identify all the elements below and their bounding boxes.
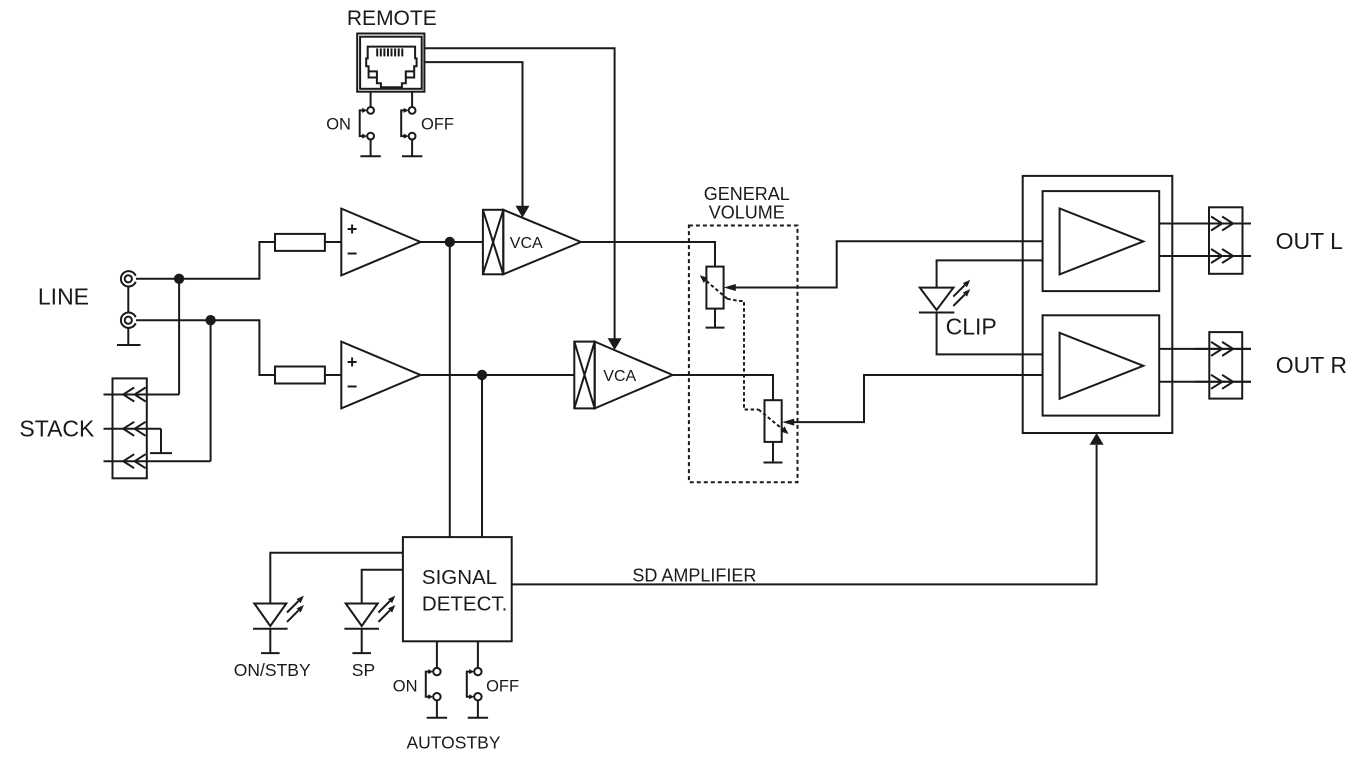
svg-text:STACK: STACK bbox=[19, 416, 95, 442]
output connector OUT R bbox=[1195, 332, 1251, 399]
wire P1 wiper to amp L input bbox=[730, 241, 1043, 287]
connector stack box bbox=[113, 378, 147, 478]
wire RCA shield link bbox=[127, 287, 129, 313]
ground at S3 bbox=[427, 717, 447, 719]
switch S4 autostby OFF bbox=[467, 641, 482, 718]
connector RCA L bbox=[121, 271, 136, 286]
op-amp U1 bbox=[341, 209, 420, 276]
svg-text:GENERAL: GENERAL bbox=[704, 184, 790, 204]
junction after U2 bbox=[477, 370, 487, 380]
amp L output wires bbox=[1159, 223, 1251, 225]
stack pin 3 wire bbox=[104, 460, 211, 462]
wire clip net to amp R aux input bbox=[937, 313, 1043, 355]
general volume dashed enclosure bbox=[689, 226, 798, 483]
resistor R1 bbox=[275, 234, 325, 251]
svg-text:VOLUME: VOLUME bbox=[709, 203, 785, 223]
wire stack pin 2 to ground bbox=[160, 429, 162, 453]
power amplifier module box bbox=[1023, 176, 1173, 433]
wire LINE R to resistor R2 bbox=[136, 320, 275, 375]
wire R2 to op-amp U2 bbox=[325, 374, 341, 376]
svg-text:LINE: LINE bbox=[38, 284, 89, 310]
ground at S2 bbox=[402, 155, 422, 157]
arrowhead into VCA1 bbox=[516, 206, 530, 218]
wire U1 out to VCA1 bbox=[421, 241, 483, 243]
P1 wiper dashed arrow bbox=[704, 279, 727, 299]
signal detect block bbox=[403, 537, 512, 641]
ground at S4 bbox=[468, 717, 488, 719]
junction node R bbox=[205, 315, 215, 325]
wire D2 to ground bbox=[269, 629, 271, 653]
op-amp U2 bbox=[341, 342, 420, 409]
LED D2 ON/STBY bbox=[253, 596, 304, 629]
LED D3 SP bbox=[344, 596, 395, 629]
junction node L bbox=[174, 274, 184, 284]
J1 pin contacts (8 pins) bbox=[377, 48, 402, 56]
wire signal detect to SP LED bbox=[362, 570, 403, 604]
ground at RCA bbox=[117, 344, 141, 346]
wire node L to stack pin1 bbox=[178, 279, 180, 395]
ground at S1 bbox=[360, 155, 380, 157]
amp R output wires bbox=[1159, 348, 1251, 350]
amp block R bbox=[1043, 315, 1160, 415]
wire LINE L to resistor R1 bbox=[136, 242, 275, 279]
svg-text:SIGNAL: SIGNAL bbox=[422, 566, 497, 589]
wire clip net to amp L aux input bbox=[937, 260, 1043, 287]
svg-text:OFF: OFF bbox=[421, 116, 454, 134]
svg-text:DETECT.: DETECT. bbox=[422, 593, 507, 616]
arrowhead into VCA2 bbox=[608, 338, 622, 350]
wire P2 wiper to amp R input bbox=[789, 375, 1043, 422]
P2 wiper dashed arrow bbox=[759, 410, 784, 430]
arrowhead into amplifier module bbox=[1090, 433, 1104, 445]
wire J1 pin to VCA1 control bbox=[424, 62, 522, 206]
wire VCA2 out to P2 bbox=[673, 375, 773, 400]
wire signal detect to ON/STBY LED bbox=[270, 553, 403, 604]
wire P1 to ground bbox=[714, 309, 716, 328]
resistor R2 bbox=[275, 367, 325, 384]
wire node R to stack pin3 bbox=[210, 320, 212, 461]
arrowhead at P1 wiper bbox=[724, 284, 736, 291]
amp block L bbox=[1043, 191, 1160, 291]
stack pin 2 chevrons bbox=[123, 422, 145, 436]
arrowhead at P2 wiper bbox=[782, 419, 794, 426]
wire SD AMPLIFIER net bbox=[512, 445, 1097, 585]
potentiometer P1 bbox=[706, 267, 723, 309]
svg-text:ON: ON bbox=[393, 678, 418, 696]
switch S1 remote ON bbox=[360, 92, 374, 157]
stack pin 1 chevrons bbox=[123, 388, 145, 402]
wire VCA1 out to volume pot P1 bbox=[581, 242, 715, 267]
connector J1 RJ45 remote jack bbox=[357, 34, 424, 92]
svg-text:OUT L: OUT L bbox=[1276, 228, 1344, 254]
switch S2 remote OFF bbox=[401, 92, 415, 157]
ground at P2 bbox=[764, 462, 783, 464]
connector RCA R bbox=[121, 313, 136, 328]
ground at stack pin 2 bbox=[150, 452, 172, 454]
svg-text:OFF: OFF bbox=[486, 678, 519, 696]
svg-text:SP: SP bbox=[352, 660, 375, 680]
potentiometer P2 bbox=[765, 400, 782, 442]
output connector OUT L bbox=[1195, 207, 1251, 273]
svg-text:AUTOSTBY: AUTOSTBY bbox=[407, 733, 501, 753]
ground at P1 bbox=[706, 327, 725, 329]
stack pin 2 wire bbox=[104, 428, 162, 430]
VCA2 multiplier cell bbox=[574, 342, 672, 409]
svg-text:CLIP: CLIP bbox=[946, 314, 997, 340]
svg-text:VCA: VCA bbox=[510, 235, 543, 252]
VCA1 multiplier cell bbox=[483, 210, 581, 274]
svg-text:OUT R: OUT R bbox=[1276, 352, 1347, 378]
svg-text:REMOTE: REMOTE bbox=[347, 7, 437, 30]
ground at D2 bbox=[261, 652, 280, 654]
wire U2 out to VCA2 bbox=[421, 374, 575, 376]
svg-text:SD AMPLIFIER: SD AMPLIFIER bbox=[632, 566, 756, 586]
wire J1 pin to VCA2 control bbox=[424, 48, 614, 339]
wire junction L to signal detect bbox=[449, 242, 451, 537]
mechanical gang link dashed bbox=[727, 299, 758, 410]
wire D3 to ground bbox=[361, 629, 363, 653]
LED D1 CLIP bbox=[919, 280, 970, 313]
wire junction R to signal detect bbox=[481, 375, 483, 537]
stack pin 3 chevrons bbox=[123, 454, 145, 468]
svg-text:ON/STBY: ON/STBY bbox=[234, 660, 311, 680]
ground at D3 bbox=[352, 652, 371, 654]
wire P2 to ground bbox=[772, 442, 774, 463]
junction after U1 bbox=[445, 237, 455, 247]
svg-text:VCA: VCA bbox=[603, 368, 636, 385]
wire R1 to op-amp U1 bbox=[325, 241, 341, 243]
svg-text:ON: ON bbox=[326, 116, 351, 134]
switch S3 autostby ON bbox=[426, 641, 441, 718]
wire RCA R shield to ground bbox=[127, 328, 129, 345]
stack pin 1 wire bbox=[104, 394, 180, 396]
